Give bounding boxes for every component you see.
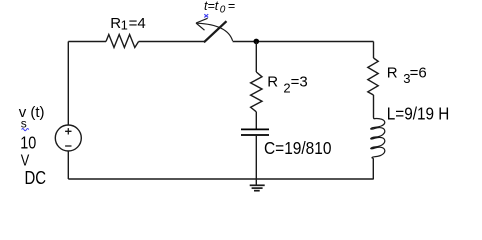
svg-text:=6: =6 bbox=[410, 64, 427, 81]
ground bar 2 bbox=[252, 187, 263, 189]
wire node down to R2 bbox=[255, 42, 257, 73]
label R1=4 bbox=[110, 15, 145, 33]
svg-text:0: 0 bbox=[220, 5, 226, 16]
svg-text:=: = bbox=[228, 0, 235, 13]
node junction dot bbox=[253, 39, 259, 45]
voltage source V1 circle bbox=[55, 125, 81, 151]
svg-text:L=9/19 H: L=9/19 H bbox=[387, 103, 449, 123]
wire capacitor to bottom bbox=[255, 135, 257, 179]
blue x mark under t label bbox=[204, 14, 208, 17]
label R3=6 bbox=[387, 64, 427, 86]
resistor R3 bbox=[368, 58, 378, 95]
bottom wire bbox=[68, 178, 373, 180]
svg-text:=3: =3 bbox=[291, 74, 308, 91]
left wire top to source bbox=[67, 42, 69, 126]
label R2=3 bbox=[267, 74, 308, 96]
ground stem bbox=[255, 179, 257, 185]
svg-text:DC: DC bbox=[25, 167, 47, 188]
switch arrow head bbox=[196, 18, 208, 30]
plus sign bbox=[65, 128, 71, 134]
left wire source to bottom bbox=[67, 151, 69, 179]
svg-text:=4: =4 bbox=[129, 15, 146, 32]
svg-text:1: 1 bbox=[121, 17, 128, 32]
wire R2 to capacitor bbox=[255, 112, 257, 129]
svg-text:t=t: t=t bbox=[204, 0, 219, 13]
svg-text:10: 10 bbox=[20, 133, 36, 153]
blue squiggle under s bbox=[22, 129, 29, 131]
ground bar 3 bbox=[254, 190, 260, 192]
capacitor C top plate bbox=[241, 128, 269, 130]
wire switch to right corner bbox=[233, 41, 374, 43]
resistor R1 bbox=[106, 35, 139, 48]
svg-text:C=19/810: C=19/810 bbox=[264, 138, 331, 158]
svg-text:R: R bbox=[267, 74, 278, 91]
switch S1 blade bbox=[204, 21, 227, 42]
switch motion arc bbox=[197, 23, 232, 41]
svg-text:R: R bbox=[387, 64, 398, 81]
wire right corner down to R3 bbox=[373, 42, 375, 59]
inductor L bbox=[371, 119, 385, 159]
wire R3 to inductor bbox=[374, 95, 375, 119]
label t=t0= bbox=[204, 0, 235, 16]
ground bar 1 bbox=[250, 184, 265, 186]
wire R1 to switch bbox=[139, 41, 205, 43]
minus sign bbox=[65, 145, 71, 147]
resistor R2 bbox=[251, 72, 262, 112]
wire top-left horizontal segment bbox=[68, 41, 106, 43]
capacitor C bottom plate bbox=[241, 134, 269, 136]
wire inductor to bottom corner bbox=[372, 158, 374, 179]
svg-text:2: 2 bbox=[283, 80, 290, 95]
